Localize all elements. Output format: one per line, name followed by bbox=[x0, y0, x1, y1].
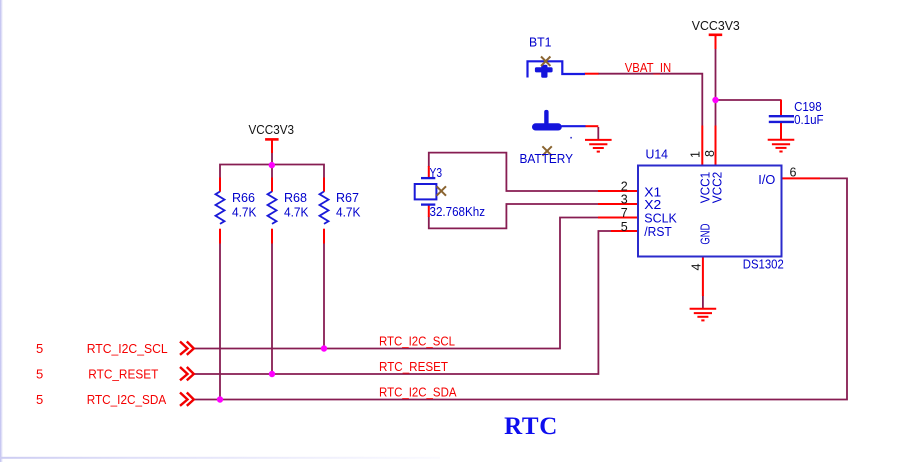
svg-text:DS1302: DS1302 bbox=[743, 257, 784, 271]
svg-text:RTC_I2C_SCL: RTC_I2C_SCL bbox=[379, 334, 455, 349]
svg-text:RTC: RTC bbox=[504, 413, 558, 440]
svg-text:VCC3V3: VCC3V3 bbox=[249, 123, 295, 137]
svg-text:7: 7 bbox=[621, 206, 628, 220]
svg-text:BATTERY: BATTERY bbox=[520, 152, 574, 166]
svg-text:4.7K: 4.7K bbox=[284, 205, 309, 219]
svg-text:GND: GND bbox=[698, 224, 712, 245]
svg-text:5: 5 bbox=[621, 220, 628, 234]
svg-text:Y3: Y3 bbox=[430, 166, 443, 180]
svg-text:5: 5 bbox=[36, 392, 43, 407]
svg-text:X2: X2 bbox=[644, 198, 661, 212]
svg-text:0.1uF: 0.1uF bbox=[794, 113, 824, 127]
svg-text:SCLK: SCLK bbox=[644, 212, 677, 226]
svg-text:U14: U14 bbox=[646, 147, 669, 161]
svg-text:VCC3V3: VCC3V3 bbox=[692, 19, 740, 33]
svg-text:C198: C198 bbox=[794, 100, 822, 114]
svg-text:1: 1 bbox=[689, 151, 703, 158]
svg-text:5: 5 bbox=[36, 341, 43, 356]
svg-text:RTC_RESET: RTC_RESET bbox=[88, 366, 158, 381]
svg-text:8: 8 bbox=[703, 150, 717, 157]
svg-text:RTC_I2C_SDA: RTC_I2C_SDA bbox=[87, 392, 167, 407]
svg-text:6: 6 bbox=[790, 165, 797, 179]
svg-text:32.768Khz: 32.768Khz bbox=[430, 205, 486, 219]
svg-text:VBAT_IN: VBAT_IN bbox=[625, 60, 672, 75]
svg-text:2: 2 bbox=[621, 179, 628, 193]
svg-text:BT1: BT1 bbox=[529, 36, 552, 50]
svg-text:4: 4 bbox=[690, 264, 704, 271]
svg-text:I/O: I/O bbox=[758, 173, 775, 187]
svg-text:/RST: /RST bbox=[644, 225, 672, 239]
svg-text:3: 3 bbox=[621, 192, 628, 206]
svg-text:4.7K: 4.7K bbox=[232, 205, 257, 219]
svg-text:VCC2: VCC2 bbox=[710, 172, 724, 204]
svg-text:4.7K: 4.7K bbox=[336, 205, 361, 219]
svg-text:R66: R66 bbox=[232, 191, 255, 205]
svg-text:RTC_RESET: RTC_RESET bbox=[379, 359, 448, 374]
svg-text:R68: R68 bbox=[284, 191, 307, 205]
svg-text:5: 5 bbox=[36, 366, 43, 381]
svg-text:R67: R67 bbox=[336, 191, 359, 205]
svg-text:RTC_I2C_SDA: RTC_I2C_SDA bbox=[379, 385, 457, 400]
svg-text:RTC_I2C_SCL: RTC_I2C_SCL bbox=[87, 341, 168, 356]
